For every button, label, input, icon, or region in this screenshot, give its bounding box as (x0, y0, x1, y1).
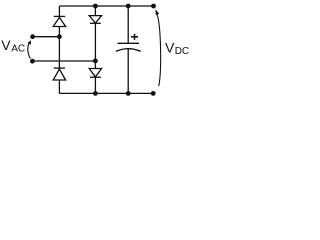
capacitor plus polarity mark (131, 34, 138, 40)
label VDC (165, 40, 189, 58)
capacitor C1 top lead (127, 6, 129, 43)
node capacitor top junction (126, 4, 131, 9)
wire left bridge branch (58, 6, 60, 93)
capacitor C1 negative curved plate (116, 49, 141, 52)
svg-text:V: V (1, 37, 11, 53)
VDC arrowhead (156, 9, 160, 15)
node left branch AC junction (57, 34, 62, 39)
wire AC input bottom (32, 60, 95, 62)
wire AC input top (33, 36, 60, 38)
node right branch bottom junction (93, 91, 98, 96)
svg-text:DC: DC (175, 46, 189, 57)
label VAC (1, 37, 25, 55)
wire top rail (59, 5, 153, 7)
svg-text:V: V (165, 40, 175, 56)
diode D3 bottom-left (anode down, cathode up) (53, 68, 65, 80)
VAC arrowhead (28, 40, 32, 45)
wire bottom rail (59, 92, 153, 94)
capacitor C1 bottom lead (127, 49, 129, 94)
diode D2 top-right (anode up, cathode down) (89, 16, 101, 24)
node right branch AC junction (93, 59, 98, 64)
node AC terminal bottom (30, 59, 35, 64)
VAC measurement arc (28, 43, 31, 59)
node DC terminal bottom (151, 91, 156, 96)
diode D4 bottom-right (anode up, cathode down) (89, 69, 101, 78)
VDC measurement arc (156, 12, 160, 86)
wire right bridge branch (94, 6, 96, 93)
node right branch top junction (93, 4, 98, 9)
capacitor C1 positive plate (118, 42, 140, 44)
diode D1 top-left (anode down, cathode up) (53, 16, 65, 26)
node capacitor bottom junction (126, 91, 131, 96)
svg-text:AC: AC (11, 44, 25, 55)
node AC terminal top (30, 34, 35, 39)
node DC terminal top (151, 4, 156, 9)
